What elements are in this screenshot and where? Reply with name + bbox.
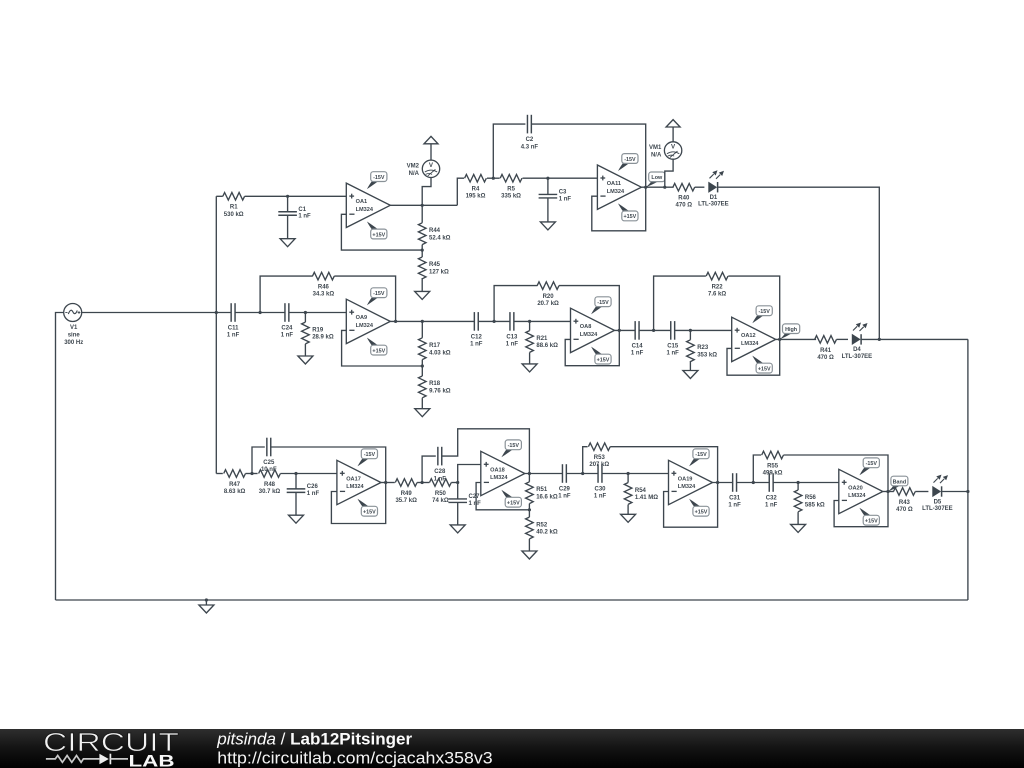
node R17/R18 [421, 364, 424, 367]
svg-text:R54: R54 [635, 488, 647, 494]
svg-text:LM324: LM324 [356, 323, 374, 329]
svg-text:1 nF: 1 nF [728, 503, 741, 509]
resistor R50 [430, 479, 452, 504]
power flag (VM2) [424, 136, 438, 143]
wire OA11 output [641, 186, 673, 188]
wire C15 to OA12+ [675, 329, 732, 331]
svg-text:52.4 kΩ: 52.4 kΩ [429, 235, 451, 241]
node OA20 out [886, 490, 889, 493]
node C25 tap [250, 472, 253, 475]
wire R55 riser [753, 455, 761, 483]
svg-text:High: High [785, 327, 797, 333]
wire D4 to right rail [862, 338, 968, 340]
svg-text:R51: R51 [536, 487, 548, 493]
svg-text:sine: sine [68, 333, 81, 339]
node OA18 out [528, 472, 531, 475]
node R19 tap [304, 311, 307, 314]
svg-text:1 nF: 1 nF [559, 196, 572, 202]
node OA18 plus tap [456, 481, 459, 484]
svg-text:V1: V1 [70, 325, 78, 331]
svg-text:470 Ω: 470 Ω [896, 507, 913, 513]
wire riser to R4 [457, 178, 464, 205]
svg-text:-15V: -15V [373, 175, 385, 181]
svg-text:R46: R46 [318, 285, 330, 291]
svg-text:R40: R40 [678, 196, 690, 202]
capacitor C24 [281, 303, 294, 339]
node flag Band [888, 476, 908, 491]
svg-text:VM1: VM1 [649, 145, 662, 151]
resistor R45 [418, 250, 449, 279]
op-amp OA11 [597, 154, 641, 221]
capacitor C31 [728, 473, 741, 509]
svg-text:127 kΩ: 127 kΩ [429, 270, 449, 276]
svg-text:R43: R43 [899, 500, 911, 506]
resistor R22 [706, 272, 728, 297]
svg-text:207 kΩ: 207 kΩ [589, 462, 609, 468]
wire D5 to right rail [942, 491, 968, 493]
node OA12 out [778, 338, 781, 341]
svg-text:+15V: +15V [597, 357, 610, 363]
svg-text:R22: R22 [712, 285, 724, 291]
node C26 tap [294, 472, 297, 475]
op-amp OA8 [571, 297, 615, 364]
LED D4 [842, 323, 873, 360]
footer bar [0, 729, 1024, 768]
resistor R44 [418, 205, 450, 250]
wire OA17 output [381, 482, 395, 484]
node R54 tap [627, 472, 630, 475]
svg-text:7.6 kΩ: 7.6 kΩ [708, 292, 726, 298]
resistor R52 [526, 510, 558, 539]
svg-text:OA18: OA18 [490, 467, 505, 473]
node R20 tap [493, 320, 496, 323]
resistor R53 [588, 443, 610, 468]
node R22 tap [652, 329, 655, 332]
resistor R49 [395, 479, 417, 504]
svg-text:1 nF: 1 nF [667, 351, 680, 357]
wire C12 to C13 [478, 320, 510, 322]
op-amp OA12 [732, 306, 776, 373]
wire V1 left to bottom rail [56, 313, 64, 601]
capacitor C14 [631, 321, 644, 357]
wire input distribution vertical [215, 196, 217, 473]
ground (R23) [689, 361, 691, 370]
wire D1 to right rail [718, 187, 879, 339]
svg-text:-15V: -15V [866, 461, 878, 467]
svg-text:LM324: LM324 [678, 484, 696, 490]
node R56 tap [797, 481, 800, 484]
svg-text:C28: C28 [434, 469, 446, 475]
capacitor C2 [521, 115, 539, 151]
wire VM2 connection [422, 178, 431, 206]
node R51/R52 [528, 508, 531, 511]
wire VM1 connection [665, 159, 673, 187]
resistor R40 [673, 183, 695, 208]
node OA11 out [644, 186, 647, 189]
wire R1 to OA1+ [245, 195, 347, 197]
wire OA19 feedback loop [664, 483, 718, 528]
resistor R19 [302, 313, 334, 344]
capacitor C28 [434, 447, 447, 483]
svg-text:R4: R4 [472, 187, 480, 193]
op-amp OA1 [346, 172, 390, 239]
wire C11 to C24 [260, 312, 285, 314]
wire OA20 feedback loop [834, 492, 888, 527]
LED D5 [922, 475, 953, 512]
svg-text:OA12: OA12 [741, 333, 756, 339]
logo diode symbol [99, 754, 108, 765]
resistor R43 [894, 488, 916, 513]
svg-text:-15V: -15V [373, 291, 385, 297]
ground (R18) [421, 398, 423, 409]
svg-text:-15V: -15V [695, 452, 707, 458]
svg-text:335 kΩ: 335 kΩ [501, 194, 521, 200]
svg-text:LM324: LM324 [346, 484, 364, 490]
svg-text:+15V: +15V [865, 519, 878, 525]
ground (R52) [528, 539, 530, 551]
node C28 left tap [421, 481, 424, 484]
wire R5 to OA11+ [523, 177, 598, 179]
voltage source V1 [64, 304, 84, 347]
wire R40 to D1 [695, 186, 705, 188]
node R46 tap [259, 311, 262, 314]
wire OA18 plus riser [458, 465, 481, 483]
wire R53 riser [583, 447, 588, 474]
wire R55 to OA20 output [784, 455, 889, 492]
op-amp OA9 [346, 288, 390, 355]
wire C25 riser [252, 447, 265, 474]
wire R22 riser [654, 276, 706, 330]
node input node [215, 311, 218, 314]
capacitor C13 [506, 312, 519, 348]
node R17 tap [421, 320, 424, 323]
svg-text:20.7 kΩ: 20.7 kΩ [537, 301, 559, 307]
svg-text:+15V: +15V [695, 510, 708, 516]
svg-text:LTL-307EE: LTL-307EE [842, 354, 873, 360]
wire C13 to OA8+ [514, 320, 571, 322]
capacitor C25 [261, 438, 277, 474]
node OA8 out [618, 329, 621, 332]
capacitor C1 [278, 196, 311, 238]
wire OA8 feedback loop [565, 330, 619, 365]
capacitor C15 [667, 321, 680, 357]
resistor R18 [419, 366, 451, 398]
node R23 tap [689, 329, 692, 332]
node R21 tap [528, 320, 531, 323]
resistor R5 [500, 174, 522, 199]
svg-text:8.63 kΩ: 8.63 kΩ [224, 489, 246, 495]
ground (R45) [421, 278, 423, 291]
svg-text:195 kΩ: 195 kΩ [466, 194, 486, 200]
svg-text:OA8: OA8 [580, 324, 592, 330]
svg-text:28.9 kΩ: 28.9 kΩ [312, 335, 334, 341]
ground (C1) [287, 238, 289, 240]
node C3 tap [546, 177, 549, 180]
wire OA12 output [776, 338, 816, 340]
svg-text:LM324: LM324 [490, 475, 508, 481]
wire C32 to OA20+ [773, 482, 839, 484]
wire R47 to R48 [246, 473, 258, 475]
wire R22 to OA12 output [728, 276, 779, 339]
node R44/R45 [421, 249, 424, 252]
op-amp OA17 [337, 449, 381, 516]
svg-text:C15: C15 [667, 343, 679, 349]
svg-text:1.41 MΩ: 1.41 MΩ [635, 495, 658, 501]
svg-text:C2: C2 [526, 137, 534, 143]
wire right rail up from bottom [967, 339, 969, 600]
wire C29 to C30 [566, 473, 598, 475]
svg-text:1 nF: 1 nF [765, 503, 778, 509]
resistor R21 [526, 321, 558, 352]
svg-text:+15V: +15V [624, 214, 637, 220]
svg-text:+15V: +15V [363, 510, 376, 516]
wire OA9 output [390, 320, 474, 322]
ground (R54) [627, 505, 629, 515]
wire R48 to OA17+ [280, 473, 337, 475]
resistor R23 [687, 330, 718, 361]
wire C30 to OA19+ [602, 473, 669, 475]
svg-text:+15V: +15V [758, 366, 771, 372]
svg-text:R53: R53 [594, 455, 606, 461]
svg-text:C29: C29 [559, 487, 571, 493]
capacitor C30 [594, 464, 607, 500]
svg-text:R49: R49 [401, 491, 413, 497]
svg-text:LAB: LAB [129, 751, 175, 768]
svg-text:R23: R23 [697, 345, 709, 351]
svg-text:R1: R1 [230, 205, 238, 211]
svg-text:R20: R20 [543, 294, 555, 300]
wire OA18 output [525, 473, 563, 475]
wire OA19 output [713, 482, 733, 484]
svg-text:470 Ω: 470 Ω [676, 203, 693, 209]
svg-text:R17: R17 [429, 343, 441, 349]
resistor R56 [794, 483, 825, 513]
wire OA9 feedback loop [342, 330, 423, 366]
svg-text:R48: R48 [264, 482, 276, 488]
svg-text:+15V: +15V [507, 501, 520, 507]
node flag Low [646, 172, 665, 187]
svg-text:9.76 kΩ: 9.76 kΩ [429, 389, 451, 395]
resistor R48 [259, 470, 281, 495]
voltmeter VM2 [407, 160, 440, 177]
wire C2 to OA11 output [531, 124, 645, 187]
wire OA18 feedback loop [476, 483, 529, 510]
wire R49 to R50 [417, 482, 429, 484]
wire R46 riser [260, 276, 313, 312]
capacitor C3 [539, 178, 572, 222]
resistor R54 [624, 474, 658, 505]
capacitor C27 [448, 483, 481, 525]
svg-text:Low: Low [651, 175, 663, 181]
svg-text:1 nF: 1 nF [469, 501, 482, 507]
svg-text:R47: R47 [229, 482, 241, 488]
svg-text:LM324: LM324 [848, 493, 866, 499]
wire R20 to OA8 output [559, 286, 619, 331]
svg-text:OA9: OA9 [356, 315, 368, 321]
svg-text:OA19: OA19 [678, 476, 693, 482]
wire OA12 feedback loop [727, 339, 780, 375]
svg-text:R45: R45 [429, 262, 441, 268]
svg-text:D4: D4 [853, 347, 861, 353]
svg-text:D5: D5 [934, 499, 942, 505]
logo resistor symbol [46, 756, 100, 763]
svg-text:40.2 kΩ: 40.2 kΩ [536, 530, 558, 536]
svg-text:pitsinda / Lab12Pitsinger: pitsinda / Lab12Pitsinger [216, 730, 412, 748]
ground (R19) [304, 344, 306, 356]
ground (C3) [547, 221, 549, 223]
svg-text:R44: R44 [429, 228, 441, 234]
svg-text:LTL-307EE: LTL-307EE [922, 506, 953, 512]
power flag (VM1) [666, 120, 680, 127]
svg-text:35.7 kΩ: 35.7 kΩ [395, 498, 417, 504]
svg-text:+15V: +15V [372, 348, 385, 354]
wire R50 to riser [451, 482, 457, 484]
resistor R20 [537, 282, 559, 307]
node C2 tap [492, 177, 495, 180]
op-amp OA19 [669, 449, 713, 516]
wire C28 to top line [442, 429, 530, 474]
op-amp OA20 [839, 458, 883, 525]
svg-text:LM324: LM324 [741, 341, 759, 347]
svg-text:C31: C31 [729, 496, 741, 502]
svg-text:OA20: OA20 [848, 485, 863, 491]
svg-text:http://circuitlab.com/ccjacahx: http://circuitlab.com/ccjacahx358v3 [217, 750, 492, 768]
svg-text:1 nF: 1 nF [470, 342, 483, 348]
wire input to R47 [216, 473, 223, 475]
wire C31 to C32 [737, 482, 770, 484]
svg-text:D1: D1 [710, 195, 718, 201]
resistor R47 [224, 470, 246, 495]
svg-text:VM2: VM2 [407, 164, 420, 170]
ground (R21) [529, 352, 531, 364]
wire OA20 output [883, 491, 894, 493]
resistor R4 [465, 174, 487, 199]
ground (C27) [457, 524, 459, 526]
svg-text:LM324: LM324 [607, 189, 625, 195]
svg-text:C12: C12 [471, 334, 483, 340]
svg-text:R56: R56 [805, 495, 817, 501]
wire R53 to OA19 output [610, 447, 717, 483]
svg-text:R50: R50 [435, 491, 447, 497]
resistor R51 [526, 474, 558, 510]
svg-text:OA11: OA11 [607, 181, 621, 187]
svg-text:88.6 kΩ: 88.6 kΩ [536, 343, 558, 349]
svg-text:C14: C14 [632, 343, 644, 349]
ground (R56) [797, 512, 799, 524]
svg-text:C3: C3 [559, 190, 567, 196]
svg-text:+15V: +15V [372, 232, 385, 238]
svg-text:16.6 kΩ: 16.6 kΩ [536, 494, 558, 500]
resistor R41 [815, 336, 837, 361]
capacitor C11 [227, 303, 260, 339]
node OA17 out [384, 481, 387, 484]
svg-text:-15V: -15V [624, 157, 636, 163]
ground (C26) [295, 514, 297, 516]
svg-text:34.3 kΩ: 34.3 kΩ [313, 292, 335, 298]
svg-text:4.03 kΩ: 4.03 kΩ [429, 350, 451, 356]
svg-text:1 nF: 1 nF [298, 214, 311, 220]
svg-text:C13: C13 [506, 334, 518, 340]
capacitor C12 [470, 312, 483, 348]
svg-text:-15V: -15V [759, 309, 771, 315]
wire R41 to D4 [837, 338, 849, 340]
svg-text:C11: C11 [228, 326, 239, 332]
capacitor C26 [287, 474, 320, 516]
capacitor C32 [765, 473, 778, 509]
wire R4 to R5 [487, 177, 500, 179]
LED D1 [698, 170, 729, 207]
node flag High [780, 324, 800, 340]
wire R1 lead from corner [216, 195, 223, 197]
svg-text:1 nF: 1 nF [594, 494, 607, 500]
svg-text:R55: R55 [767, 463, 779, 469]
wire V1 to input node [82, 312, 231, 314]
wire C28 left riser [422, 456, 436, 482]
wire R43 to D5 [915, 491, 928, 493]
resistor R1 [223, 193, 245, 218]
node R55 tap [752, 481, 755, 484]
svg-text:30.7 kΩ: 30.7 kΩ [259, 489, 281, 495]
svg-text:C27: C27 [469, 494, 481, 500]
op-amp OA18 [481, 440, 525, 507]
wire OA1 feedback loop [341, 214, 422, 250]
svg-text:N/A: N/A [409, 171, 420, 177]
svg-text:C32: C32 [766, 496, 778, 502]
node VM1 tap [663, 186, 666, 189]
node bottom ground tap [205, 598, 208, 601]
svg-text:4.3 nF: 4.3 nF [521, 144, 539, 150]
wire C25 to OA17 output [271, 447, 386, 483]
svg-text:R52: R52 [536, 522, 548, 528]
wire C24 to OA9+ [289, 312, 347, 314]
svg-text:C24: C24 [281, 326, 293, 332]
svg-text:-15V: -15V [508, 443, 520, 449]
svg-text:Band: Band [893, 479, 906, 485]
svg-text:74 kΩ: 74 kΩ [432, 498, 449, 504]
wire C14 to C15 [639, 329, 671, 331]
svg-text:-15V: -15V [364, 452, 376, 458]
svg-text:C30: C30 [594, 487, 606, 493]
svg-text:1 nF: 1 nF [281, 333, 294, 339]
svg-text:1 nF: 1 nF [227, 333, 240, 339]
svg-text:470 Ω: 470 Ω [817, 355, 834, 361]
svg-text:LM324: LM324 [356, 207, 374, 213]
svg-text:530 kΩ: 530 kΩ [224, 212, 244, 218]
voltmeter VM1 [649, 142, 682, 159]
capacitor C29 [558, 464, 571, 500]
node OA19 out [716, 481, 719, 484]
svg-text:C26: C26 [307, 484, 319, 490]
node OA1 out [421, 204, 424, 207]
resistor R55 [762, 451, 784, 476]
wire C2 riser [493, 124, 525, 178]
wire OA11 feedback loop [592, 187, 646, 231]
svg-text:1 nF: 1 nF [307, 491, 320, 497]
node D1/D4 rail [878, 338, 881, 341]
wire OA8 output [615, 329, 636, 331]
node C1 tap [286, 195, 289, 198]
node OA9 out [394, 320, 397, 323]
svg-text:-15V: -15V [597, 300, 609, 306]
svg-text:585 kΩ: 585 kΩ [805, 503, 825, 509]
svg-text:R19: R19 [312, 327, 324, 333]
svg-text:LTL-307EE: LTL-307EE [698, 202, 729, 208]
svg-text:1 nF: 1 nF [558, 494, 571, 500]
ground (bottom rail) [205, 600, 207, 605]
svg-text:LM324: LM324 [580, 332, 598, 338]
svg-text:R18: R18 [429, 381, 441, 387]
svg-text:N/A: N/A [651, 153, 662, 159]
